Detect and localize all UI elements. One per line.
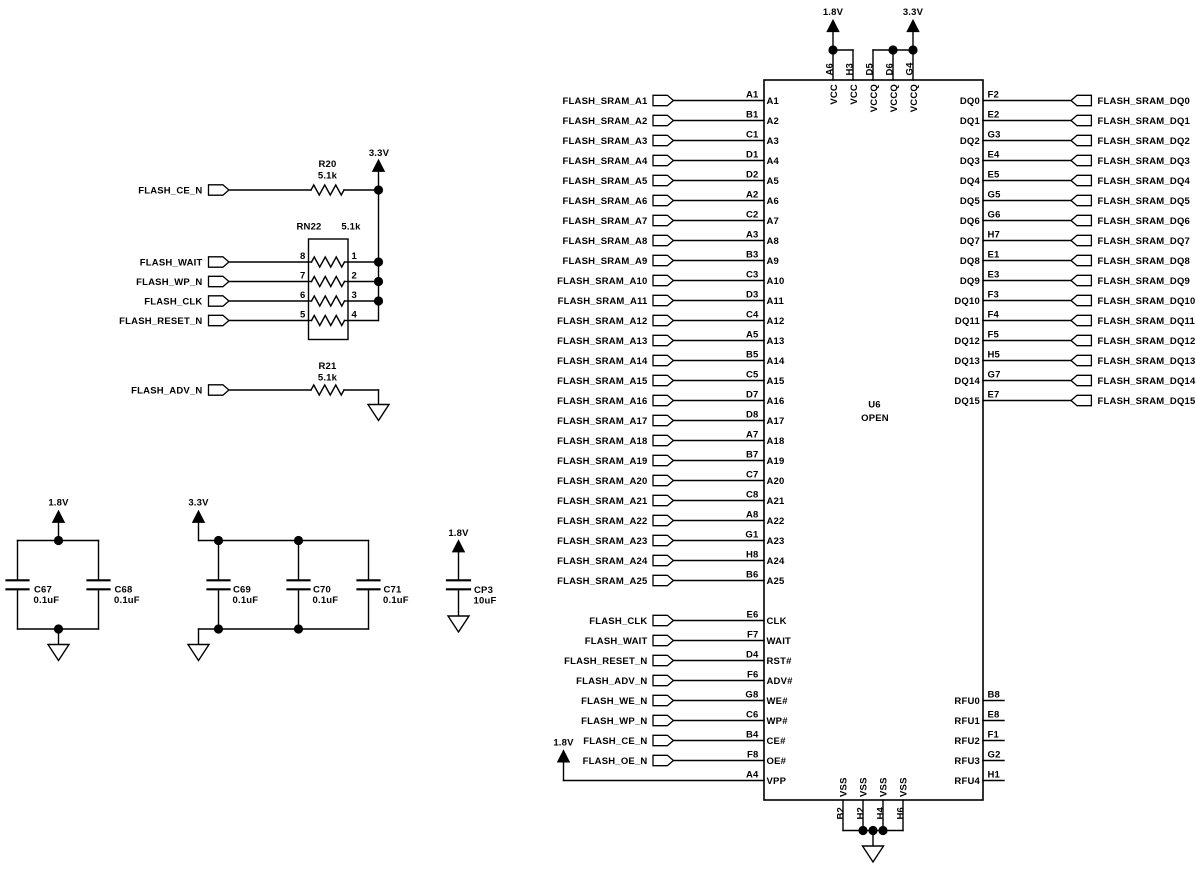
svg-text:C1: C1: [746, 129, 759, 140]
svg-text:R20: R20: [318, 159, 336, 170]
node FLASH_CLK net flag: [589, 615, 673, 627]
svg-text:OE#: OE#: [767, 756, 787, 767]
wire U6 pin H5 to FLASH_SRAM_DQ13: [983, 360, 1071, 362]
svg-text:H6: H6: [896, 807, 907, 820]
svg-text:A23: A23: [767, 536, 785, 547]
RN22 element row 2: [309, 277, 349, 287]
svg-text:FLASH_RESET_N: FLASH_RESET_N: [119, 316, 202, 327]
node FLASH_SRAM_A10 net flag: [557, 275, 673, 287]
svg-text:FLASH_SRAM_DQ15: FLASH_SRAM_DQ15: [1098, 396, 1196, 407]
capacitor C67 0.1uF: [7, 541, 60, 630]
svg-text:FLASH_SRAM_A11: FLASH_SRAM_A11: [558, 296, 648, 307]
svg-text:RFU3: RFU3: [954, 756, 980, 767]
wire U6 pin E3 to FLASH_SRAM_DQ9: [983, 280, 1071, 282]
svg-text:G6: G6: [988, 209, 1001, 220]
svg-text:VSS: VSS: [839, 777, 850, 797]
wire RN22 pin 1 to 3.3V rail: [348, 261, 379, 263]
svg-text:H7: H7: [988, 229, 1001, 240]
svg-text:A4: A4: [767, 156, 780, 167]
junction ground rail / C69: [214, 624, 223, 633]
svg-text:RFU0: RFU0: [954, 696, 980, 707]
wire U6 pin G6 to FLASH_SRAM_DQ6: [983, 220, 1071, 222]
power symbol 3.3V (C69 group): [188, 498, 209, 541]
node FLASH_OE_N net flag: [583, 755, 674, 767]
node FLASH_SRAM_DQ11 net flag: [1071, 315, 1196, 327]
svg-text:R21: R21: [318, 361, 337, 372]
svg-text:DQ12: DQ12: [954, 336, 980, 347]
power symbol 1.8V (C67 group): [48, 498, 69, 541]
wire U6 pin E2 to FLASH_SRAM_DQ1: [983, 120, 1071, 122]
svg-text:C4: C4: [746, 309, 759, 320]
svg-text:FLASH_SRAM_A9: FLASH_SRAM_A9: [563, 256, 648, 267]
svg-text:G5: G5: [988, 189, 1002, 200]
svg-text:FLASH_WAIT: FLASH_WAIT: [140, 258, 203, 269]
wire FLASH_CLK to RN22 pin 6: [229, 300, 309, 302]
wire ground rail C67-C68: [18, 628, 99, 630]
svg-text:FLASH_SRAM_A22: FLASH_SRAM_A22: [557, 516, 647, 527]
svg-text:FLASH_SRAM_A4: FLASH_SRAM_A4: [563, 156, 648, 167]
wire FLASH_SRAM_A21 to U6 pin C8: [673, 500, 764, 502]
svg-text:E2: E2: [988, 109, 1000, 120]
svg-text:3.3V: 3.3V: [369, 148, 390, 159]
power symbol 1.8V (VCC): [823, 7, 844, 50]
wire 1.8V top rail C67-C68: [18, 540, 99, 542]
wire U6 pin F5 to FLASH_SRAM_DQ12: [983, 340, 1071, 342]
wire FLASH_SRAM_A8 to U6 pin A3: [673, 240, 764, 242]
wire FLASH_SRAM_A9 to U6 pin B3: [673, 260, 764, 262]
wire U6 pin E4 to FLASH_SRAM_DQ3: [983, 160, 1071, 162]
svg-text:FLASH_SRAM_A17: FLASH_SRAM_A17: [557, 416, 647, 427]
svg-text:0.1uF: 0.1uF: [383, 595, 409, 606]
wire ground stem C67 group: [58, 629, 60, 645]
svg-text:7: 7: [300, 270, 305, 281]
svg-text:E6: E6: [746, 609, 758, 620]
svg-text:FLASH_SRAM_DQ0: FLASH_SRAM_DQ0: [1098, 96, 1191, 107]
node FLASH_SRAM_A13 net flag: [557, 335, 673, 347]
svg-text:A6: A6: [767, 196, 780, 207]
svg-text:D6: D6: [884, 63, 895, 76]
junction top rail / C70: [294, 536, 303, 545]
svg-text:FLASH_SRAM_DQ14: FLASH_SRAM_DQ14: [1098, 376, 1196, 387]
junction 3.3V / pin D6: [888, 45, 897, 54]
node FLASH_CLK net flag: [144, 296, 229, 308]
svg-text:FLASH_SRAM_DQ10: FLASH_SRAM_DQ10: [1098, 296, 1196, 307]
wire FLASH_WAIT to U6 pin F7: [673, 640, 764, 642]
wire 1.8V to U6 pin H3: [833, 50, 853, 80]
svg-text:E5: E5: [988, 169, 1001, 180]
wire R21 to ground: [344, 390, 379, 405]
svg-text:E1: E1: [988, 249, 1001, 260]
wire U6 pin G7 to FLASH_SRAM_DQ14: [983, 380, 1071, 382]
node FLASH_SRAM_A25 net flag: [557, 575, 673, 587]
ground symbol at R21: [368, 405, 389, 421]
svg-text:FLASH_WAIT: FLASH_WAIT: [585, 636, 648, 647]
svg-text:A5: A5: [767, 176, 780, 187]
node FLASH_SRAM_A15 net flag: [557, 375, 673, 387]
node FLASH_SRAM_A9 net flag: [563, 255, 674, 267]
wire U6 pin H4 to VSS rail: [882, 800, 884, 831]
RN22 element row 4: [309, 316, 349, 326]
svg-text:D2: D2: [746, 169, 759, 180]
wire FLASH_WE_N to U6 pin G8: [673, 700, 764, 702]
wire FLASH_SRAM_A13 to U6 pin A5: [673, 340, 764, 342]
resistor R21 5.1k: [311, 361, 344, 395]
svg-text:0.1uF: 0.1uF: [34, 595, 60, 606]
svg-text:FLASH_SRAM_DQ13: FLASH_SRAM_DQ13: [1098, 356, 1196, 367]
wire FLASH_SRAM_A19 to U6 pin B7: [673, 460, 764, 462]
wire 1.8V to U6 pin A6: [832, 50, 834, 80]
wire FLASH_SRAM_A23 to U6 pin G1: [673, 540, 764, 542]
wire U6 pin F3 to FLASH_SRAM_DQ10: [983, 300, 1071, 302]
svg-text:VSS: VSS: [879, 777, 890, 797]
capacitor C69 0.1uF: [208, 541, 259, 630]
svg-text:C7: C7: [746, 469, 759, 480]
node FLASH_SRAM_A12 net flag: [557, 315, 673, 327]
junction 1.8V rail / stem: [54, 536, 63, 545]
node FLASH_SRAM_A21 net flag: [557, 495, 673, 507]
svg-text:FLASH_SRAM_A13: FLASH_SRAM_A13: [557, 336, 647, 347]
svg-text:B8: B8: [988, 689, 1001, 700]
wire FLASH_WP_N to RN22 pin 7: [229, 281, 309, 283]
node FLASH_SRAM_DQ4 net flag: [1071, 175, 1191, 187]
svg-text:RST#: RST#: [767, 656, 793, 667]
svg-text:FLASH_SRAM_A19: FLASH_SRAM_A19: [557, 456, 647, 467]
node FLASH_SRAM_A23 net flag: [557, 535, 673, 547]
svg-text:WP#: WP#: [767, 716, 789, 727]
resistor R20 5.1k: [311, 159, 344, 195]
wire FLASH_SRAM_A7 to U6 pin C2: [673, 220, 764, 222]
svg-text:H4: H4: [876, 806, 887, 819]
svg-text:A9: A9: [767, 256, 780, 267]
svg-text:A3: A3: [767, 136, 780, 147]
svg-text:DQ14: DQ14: [954, 376, 980, 387]
svg-text:RN22: RN22: [296, 222, 321, 233]
node FLASH_SRAM_DQ14 net flag: [1071, 375, 1196, 387]
node FLASH_SRAM_A4 net flag: [563, 155, 674, 167]
node FLASH_SRAM_DQ2 net flag: [1071, 135, 1190, 147]
wire 3.3V top rail C69-C71: [199, 540, 369, 542]
capacitor C71 0.1uF: [358, 541, 409, 630]
svg-text:C5: C5: [746, 369, 759, 380]
svg-text:FLASH_ADV_N: FLASH_ADV_N: [131, 386, 202, 397]
svg-text:F6: F6: [747, 669, 759, 680]
svg-text:VSS: VSS: [859, 777, 870, 797]
svg-text:C71: C71: [384, 584, 403, 595]
svg-text:D3: D3: [746, 289, 759, 300]
capacitor C68 0.1uF: [88, 541, 140, 630]
node FLASH_SRAM_DQ8 net flag: [1071, 255, 1190, 267]
node FLASH_WAIT net flag: [585, 635, 674, 647]
svg-text:FLASH_SRAM_A16: FLASH_SRAM_A16: [557, 396, 647, 407]
svg-text:FLASH_SRAM_A18: FLASH_SRAM_A18: [557, 436, 647, 447]
svg-text:A1: A1: [746, 89, 759, 100]
svg-text:A2: A2: [746, 189, 759, 200]
wire FLASH_SRAM_A3 to U6 pin C1: [673, 140, 764, 142]
node FLASH_SRAM_DQ13 net flag: [1071, 355, 1196, 367]
svg-text:5.1k: 5.1k: [341, 222, 361, 233]
svg-text:A18: A18: [767, 436, 785, 447]
svg-text:A14: A14: [767, 356, 786, 367]
junction R20 / 3.3V rail: [374, 185, 383, 194]
svg-text:A15: A15: [767, 376, 786, 387]
svg-text:WE#: WE#: [767, 696, 789, 707]
svg-text:B5: B5: [746, 349, 759, 360]
svg-text:D5: D5: [864, 62, 875, 75]
svg-text:A25: A25: [767, 576, 786, 587]
wire FLASH_OE_N to U6 pin F8: [673, 760, 764, 762]
svg-text:FLASH_SRAM_A5: FLASH_SRAM_A5: [563, 176, 648, 187]
wire FLASH_WP_N to U6 pin C6: [673, 720, 764, 722]
svg-text:FLASH_WP_N: FLASH_WP_N: [136, 277, 202, 288]
svg-text:VPP: VPP: [767, 776, 787, 787]
wire FLASH_SRAM_A6 to U6 pin A2: [673, 200, 764, 202]
wire U6 pin F4 to FLASH_SRAM_DQ11: [983, 320, 1071, 322]
svg-text:A8: A8: [767, 236, 780, 247]
svg-text:VCCQ: VCCQ: [869, 84, 880, 112]
svg-text:C3: C3: [746, 269, 759, 280]
svg-text:FLASH_SRAM_DQ1: FLASH_SRAM_DQ1: [1098, 116, 1191, 127]
node FLASH_SRAM_DQ15 net flag: [1071, 395, 1196, 407]
svg-text:FLASH_SRAM_DQ8: FLASH_SRAM_DQ8: [1098, 256, 1191, 267]
wire U6 pin B2 to VSS rail: [842, 800, 844, 831]
svg-text:5: 5: [300, 309, 306, 320]
svg-text:FLASH_SRAM_A2: FLASH_SRAM_A2: [563, 116, 648, 127]
svg-text:D8: D8: [746, 409, 759, 420]
svg-text:E8: E8: [988, 709, 1000, 720]
svg-text:B6: B6: [746, 569, 759, 580]
node FLASH_SRAM_A19 net flag: [557, 455, 673, 467]
svg-text:4: 4: [352, 309, 358, 320]
svg-text:A16: A16: [767, 396, 785, 407]
svg-text:A3: A3: [746, 229, 759, 240]
svg-text:A4: A4: [746, 769, 759, 780]
svg-text:RFU2: RFU2: [954, 736, 980, 747]
wire FLASH_SRAM_A1 to U6 pin A1: [673, 100, 764, 102]
wire U6 pin H7 to FLASH_SRAM_DQ7: [983, 240, 1071, 242]
wire U6 pin F1 stub: [983, 740, 1004, 742]
svg-text:FLASH_ADV_N: FLASH_ADV_N: [576, 676, 647, 687]
node FLASH_SRAM_A5 net flag: [563, 175, 674, 187]
wire U6 pin E7 to FLASH_SRAM_DQ15: [983, 400, 1071, 402]
svg-text:3.3V: 3.3V: [188, 498, 209, 509]
svg-text:DQ15: DQ15: [954, 396, 980, 407]
svg-text:C70: C70: [313, 584, 331, 595]
svg-text:B1: B1: [746, 109, 759, 120]
wire U6 pin E1 to FLASH_SRAM_DQ8: [983, 260, 1071, 262]
svg-text:FLASH_SRAM_A23: FLASH_SRAM_A23: [557, 536, 647, 547]
ground symbol VSS: [863, 846, 884, 862]
svg-text:FLASH_SRAM_A8: FLASH_SRAM_A8: [563, 236, 648, 247]
node FLASH_SRAM_A16 net flag: [557, 395, 673, 407]
wire U6 pin G2 stub: [983, 760, 1004, 762]
wire FLASH_ADV_N to U6 pin F6: [673, 680, 764, 682]
node FLASH_SRAM_DQ10 net flag: [1071, 295, 1196, 307]
svg-text:FLASH_SRAM_A10: FLASH_SRAM_A10: [557, 276, 647, 287]
svg-text:DQ5: DQ5: [960, 196, 981, 207]
svg-text:DQ0: DQ0: [960, 96, 980, 107]
svg-text:OPEN: OPEN: [861, 413, 889, 424]
node FLASH_CE_N net flag: [583, 735, 673, 747]
svg-text:DQ9: DQ9: [960, 276, 980, 287]
svg-text:1.8V: 1.8V: [48, 498, 69, 509]
svg-text:B3: B3: [746, 249, 759, 260]
svg-text:FLASH_CLK: FLASH_CLK: [589, 616, 647, 627]
node FLASH_SRAM_A2 net flag: [563, 115, 674, 127]
node FLASH_SRAM_A7 net flag: [563, 215, 674, 227]
svg-text:A20: A20: [767, 476, 785, 487]
svg-text:ADV#: ADV#: [767, 676, 794, 687]
wire FLASH_RESET_N to RN22 pin 5: [229, 320, 309, 322]
wire U6 pin E8 stub: [983, 720, 1004, 722]
wire U6 pin H6 to VSS rail: [902, 800, 904, 831]
svg-text:A19: A19: [767, 456, 785, 467]
node FLASH_ADV_N net flag: [131, 385, 229, 397]
svg-text:B7: B7: [746, 449, 759, 460]
node FLASH_SRAM_DQ6 net flag: [1071, 215, 1190, 227]
svg-text:G4: G4: [904, 62, 915, 76]
wire U6 pin E5 to FLASH_SRAM_DQ4: [983, 180, 1071, 182]
junction VSS rail / H2: [858, 826, 867, 835]
svg-text:1.8V: 1.8V: [823, 7, 844, 18]
svg-text:FLASH_SRAM_A12: FLASH_SRAM_A12: [557, 316, 647, 327]
svg-text:DQ11: DQ11: [955, 316, 981, 327]
svg-text:1.8V: 1.8V: [553, 738, 574, 749]
power symbol 3.3V (pull-up rail): [369, 148, 390, 171]
node FLASH_SRAM_A22 net flag: [557, 515, 673, 527]
svg-text:C2: C2: [746, 209, 759, 220]
svg-text:VSS: VSS: [899, 777, 910, 797]
svg-text:C69: C69: [233, 584, 251, 595]
junction RN22 pin 3 / 3.3V rail: [374, 296, 383, 305]
wire VSS ground stem: [872, 831, 874, 847]
node FLASH_RESET_N net flag: [119, 315, 229, 327]
wire FLASH_SRAM_A22 to U6 pin A8: [673, 520, 764, 522]
node FLASH_SRAM_A11 net flag: [558, 295, 674, 307]
op IC U6 OPEN body: [764, 80, 983, 800]
wire U6 pin G3 to FLASH_SRAM_DQ2: [983, 140, 1071, 142]
svg-text:H3: H3: [844, 63, 855, 76]
node FLASH_WP_N net flag: [581, 715, 673, 727]
svg-text:0.1uF: 0.1uF: [233, 595, 259, 606]
wire RN22 pin 4 to 3.3V rail: [348, 320, 379, 322]
svg-text:A5: A5: [746, 329, 759, 340]
svg-text:FLASH_SRAM_A15: FLASH_SRAM_A15: [557, 376, 648, 387]
svg-text:FLASH_SRAM_A21: FLASH_SRAM_A21: [557, 496, 648, 507]
node FLASH_SRAM_A1 net flag: [563, 95, 674, 107]
wire 3.3V rail vertical: [378, 171, 380, 320]
svg-text:DQ3: DQ3: [960, 156, 980, 167]
node FLASH_SRAM_A20 net flag: [557, 475, 673, 487]
capacitor CP3 10uF: [447, 580, 496, 606]
svg-text:CE#: CE#: [767, 736, 787, 747]
wire FLASH_SRAM_A11 to U6 pin D3: [673, 300, 764, 302]
svg-text:A22: A22: [767, 516, 785, 527]
svg-text:C67: C67: [34, 584, 52, 595]
svg-text:FLASH_WP_N: FLASH_WP_N: [581, 716, 647, 727]
svg-text:E4: E4: [988, 149, 1001, 160]
svg-text:FLASH_SRAM_A20: FLASH_SRAM_A20: [557, 476, 647, 487]
wire U6 pin G5 to FLASH_SRAM_DQ5: [983, 200, 1071, 202]
node FLASH_SRAM_A18 net flag: [557, 435, 673, 447]
svg-text:A17: A17: [767, 416, 785, 427]
svg-text:G1: G1: [745, 529, 759, 540]
svg-text:FLASH_WE_N: FLASH_WE_N: [581, 696, 647, 707]
junction ground rail / stem: [54, 624, 63, 633]
svg-text:G7: G7: [988, 369, 1001, 380]
wire FLASH_SRAM_A2 to U6 pin B1: [673, 120, 764, 122]
svg-text:G3: G3: [988, 129, 1001, 140]
wire FLASH_SRAM_A14 to U6 pin B5: [673, 360, 764, 362]
svg-text:VCCQ: VCCQ: [909, 84, 920, 112]
svg-text:FLASH_CE_N: FLASH_CE_N: [583, 736, 647, 747]
svg-text:VCC: VCC: [829, 84, 840, 105]
svg-text:A2: A2: [767, 116, 780, 127]
svg-text:D1: D1: [746, 149, 759, 160]
svg-text:A7: A7: [746, 429, 759, 440]
wire FLASH_SRAM_A17 to U6 pin D8: [673, 420, 764, 422]
node FLASH_SRAM_DQ5 net flag: [1071, 195, 1191, 207]
svg-text:FLASH_SRAM_DQ5: FLASH_SRAM_DQ5: [1098, 196, 1191, 207]
node FLASH_SRAM_A3 net flag: [563, 135, 674, 147]
svg-text:3: 3: [352, 290, 357, 301]
wire U6 pin H2 to VSS rail: [862, 800, 864, 831]
wire U6 pin H1 stub: [983, 780, 1004, 782]
svg-text:6: 6: [300, 290, 305, 301]
svg-text:CLK: CLK: [767, 616, 787, 627]
svg-text:DQ7: DQ7: [960, 236, 980, 247]
svg-text:A6: A6: [824, 63, 835, 76]
svg-text:5.1k: 5.1k: [318, 171, 338, 182]
power symbol 3.3V (VCCQ): [903, 7, 924, 50]
svg-text:H1: H1: [988, 769, 1001, 780]
junction VSS rail / H4: [878, 826, 887, 835]
node FLASH_ADV_N net flag: [576, 675, 673, 687]
svg-text:FLASH_SRAM_A3: FLASH_SRAM_A3: [563, 136, 648, 147]
svg-text:FLASH_SRAM_DQ6: FLASH_SRAM_DQ6: [1098, 216, 1191, 227]
svg-text:FLASH_OE_N: FLASH_OE_N: [583, 756, 648, 767]
wire FLASH_RESET_N to U6 pin D4: [673, 660, 764, 662]
node FLASH_SRAM_A8 net flag: [563, 235, 674, 247]
node FLASH_SRAM_DQ7 net flag: [1071, 235, 1190, 247]
svg-text:C8: C8: [746, 489, 759, 500]
svg-text:FLASH_SRAM_DQ9: FLASH_SRAM_DQ9: [1098, 276, 1191, 287]
wire FLASH_CE_N to U6 pin B4: [673, 740, 764, 742]
svg-text:10uF: 10uF: [474, 595, 497, 606]
svg-text:H5: H5: [988, 349, 1001, 360]
svg-text:1.8V: 1.8V: [448, 528, 469, 539]
svg-text:DQ8: DQ8: [960, 256, 980, 267]
capacitor C70 0.1uF: [288, 541, 339, 630]
wire FLASH_SRAM_A20 to U6 pin C7: [673, 480, 764, 482]
svg-text:2: 2: [352, 270, 357, 281]
svg-text:A10: A10: [767, 276, 785, 287]
svg-text:DQ4: DQ4: [960, 176, 981, 187]
svg-text:FLASH_SRAM_DQ4: FLASH_SRAM_DQ4: [1098, 176, 1191, 187]
svg-text:D4: D4: [746, 649, 759, 660]
wire 1.8V to VPP: [564, 762, 765, 781]
wire FLASH_SRAM_A5 to U6 pin D2: [673, 180, 764, 182]
svg-text:WAIT: WAIT: [767, 636, 792, 647]
svg-text:1: 1: [352, 251, 358, 262]
svg-text:E7: E7: [988, 389, 1000, 400]
svg-text:A1: A1: [767, 96, 780, 107]
junction top rail / C69: [214, 536, 223, 545]
svg-text:0.1uF: 0.1uF: [114, 595, 140, 606]
wire FLASH_SRAM_A18 to U6 pin A7: [673, 440, 764, 442]
svg-text:B2: B2: [836, 807, 847, 820]
svg-text:DQ6: DQ6: [960, 216, 980, 227]
node FLASH_WAIT net flag: [140, 257, 229, 269]
